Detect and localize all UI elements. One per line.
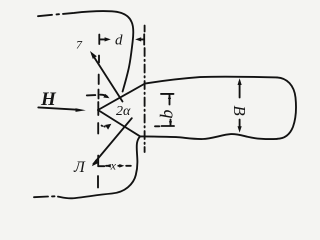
d dimension right arrow line — [140, 38, 144, 40]
x dimension right tail — [118, 165, 121, 167]
upper arc arrowhead — [103, 94, 109, 98]
weld pool outline top edge — [145, 77, 277, 84]
beam edge line 7 — [92, 54, 122, 101]
svg-text:B: B — [230, 105, 249, 116]
B down arrowhead — [238, 126, 242, 132]
svg-text:H: H — [40, 89, 57, 110]
upper arc arrow dash — [87, 94, 96, 96]
weld pool outline bottom edge — [140, 134, 277, 139]
d right arrowhead — [135, 37, 141, 41]
melt boundary upper curve (dash-dot lead-in then solid, curves down right side) — [38, 15, 52, 16]
b top mini arrowhead — [168, 95, 171, 100]
B dimension down arrow shaft — [239, 120, 241, 129]
lower arc arrowhead — [105, 124, 112, 130]
svg-text:d: d — [115, 32, 123, 48]
b dimension bottom shaft — [170, 120, 172, 126]
weld pool rounded right end cap — [277, 77, 296, 138]
d dimension left arrow — [100, 38, 105, 40]
b dimension bottom tick bar — [162, 125, 175, 127]
b dimension top shaft — [169, 94, 171, 104]
keyhole V lower edge — [98, 110, 140, 136]
H arrowhead — [76, 108, 86, 112]
b dimension bottom tick dashes — [155, 125, 159, 127]
line 7 arrowhead — [90, 51, 97, 59]
dashed vertical line through keyhole apex — [98, 35, 100, 45]
x right arrowhead — [119, 164, 124, 168]
svg-text:x: x — [110, 159, 117, 173]
b bottom mini arrowhead — [169, 121, 172, 125]
svg-text:7: 7 — [76, 38, 83, 52]
melt boundary lower wavy curve with hook — [34, 196, 48, 199]
keyhole V upper edge — [98, 84, 145, 111]
B dimension up arrow shaft — [239, 82, 241, 98]
x left arrowhead — [106, 164, 111, 168]
svg-text:Л: Л — [73, 159, 86, 176]
B up arrowhead — [238, 78, 242, 85]
beam edge line L — [93, 118, 131, 164]
x dimension left tail — [106, 165, 110, 167]
line L arrowhead — [92, 160, 99, 167]
H direction arrow line — [38, 107, 77, 109]
lower arc arrow dots — [101, 125, 104, 127]
upper arc arrow curve — [100, 95, 107, 97]
svg-text:2α: 2α — [116, 104, 131, 119]
svg-text:b: b — [157, 110, 177, 119]
dash-dot vertical axis line — [144, 26, 146, 32]
b dimension top tick bar — [161, 93, 174, 95]
x dimension right dash — [126, 165, 131, 167]
d left arrowhead — [105, 37, 111, 41]
